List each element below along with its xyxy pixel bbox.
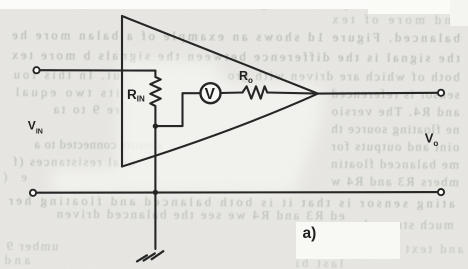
junction node B <box>153 190 158 195</box>
wire meter to RO <box>221 91 243 94</box>
circuit ink <box>36 16 438 261</box>
wire RO to apex / output <box>267 93 438 94</box>
resistor RO <box>243 86 268 98</box>
white top strip <box>0 0 468 9</box>
terminal VO- <box>438 189 444 195</box>
svg-text:V: V <box>205 86 216 103</box>
resistor RIN <box>150 71 161 126</box>
svg-text:qual resistances (f: qual resistances (f <box>12 154 135 169</box>
wire bottom rail <box>36 191 438 194</box>
white patch near label a) <box>296 222 400 259</box>
whiter figure patch <box>52 60 322 194</box>
terminal VO+ <box>438 90 444 96</box>
wire ground stem <box>154 126 156 249</box>
svg-text:e (: e ( <box>3 170 27 184</box>
svg-text:me balanced floatin: me balanced floatin <box>331 157 460 172</box>
svg-text:and: and <box>4 253 31 267</box>
svg-text:ne floating source th: ne floating source th <box>331 122 460 137</box>
svg-text:mbers R3 and R4 w: mbers R3 and R4 w <box>331 174 459 189</box>
wire node to meter <box>155 93 200 126</box>
svg-text:and R4. The versio: and R4. The versio <box>331 104 459 119</box>
junction node A <box>153 123 158 128</box>
wire top input <box>40 69 155 72</box>
terminal VIN+ <box>33 67 39 73</box>
voltmeter V <box>201 83 221 103</box>
terminal VIN- <box>30 190 36 196</box>
svg-text:a): a) <box>303 225 317 242</box>
op-amp U1 triangle <box>122 16 318 167</box>
ground <box>137 251 163 261</box>
